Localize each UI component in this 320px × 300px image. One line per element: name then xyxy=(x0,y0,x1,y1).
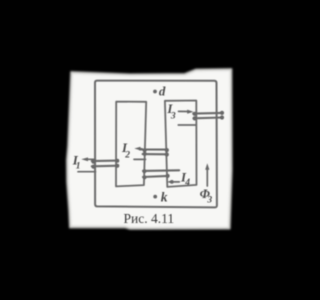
label I1 xyxy=(72,152,81,171)
label Phi3 xyxy=(200,186,213,206)
node dot k xyxy=(153,195,157,199)
left window xyxy=(116,102,146,187)
svg-text:1: 1 xyxy=(76,162,81,172)
svg-text:k: k xyxy=(161,189,168,204)
label I4 xyxy=(180,169,190,188)
svg-text:3: 3 xyxy=(170,112,176,122)
winding W4 on middle limb (lower) xyxy=(142,169,179,179)
svg-text:d: d xyxy=(159,84,166,99)
winding W1 on left limb xyxy=(91,159,119,169)
svg-text:4: 4 xyxy=(184,178,190,188)
wire + arrow I3 xyxy=(178,110,196,125)
svg-text:Рис. 4.11: Рис. 4.11 xyxy=(123,211,174,226)
core outline xyxy=(95,81,217,208)
winding W2 on middle limb (upper) xyxy=(140,148,169,157)
label I2 xyxy=(121,140,130,161)
wire + arrow I1 xyxy=(78,157,96,171)
svg-text:2: 2 xyxy=(124,151,130,161)
node dot d xyxy=(153,90,157,94)
svg-text:3: 3 xyxy=(206,196,212,206)
wire + arrow I4 xyxy=(167,180,179,184)
winding W3 on right limb xyxy=(193,111,225,121)
right window xyxy=(165,101,197,187)
wire + arrow I2 xyxy=(134,147,146,160)
white page area xyxy=(67,70,231,229)
label I3 xyxy=(166,101,176,122)
flux arrow Phi3 xyxy=(205,163,209,186)
